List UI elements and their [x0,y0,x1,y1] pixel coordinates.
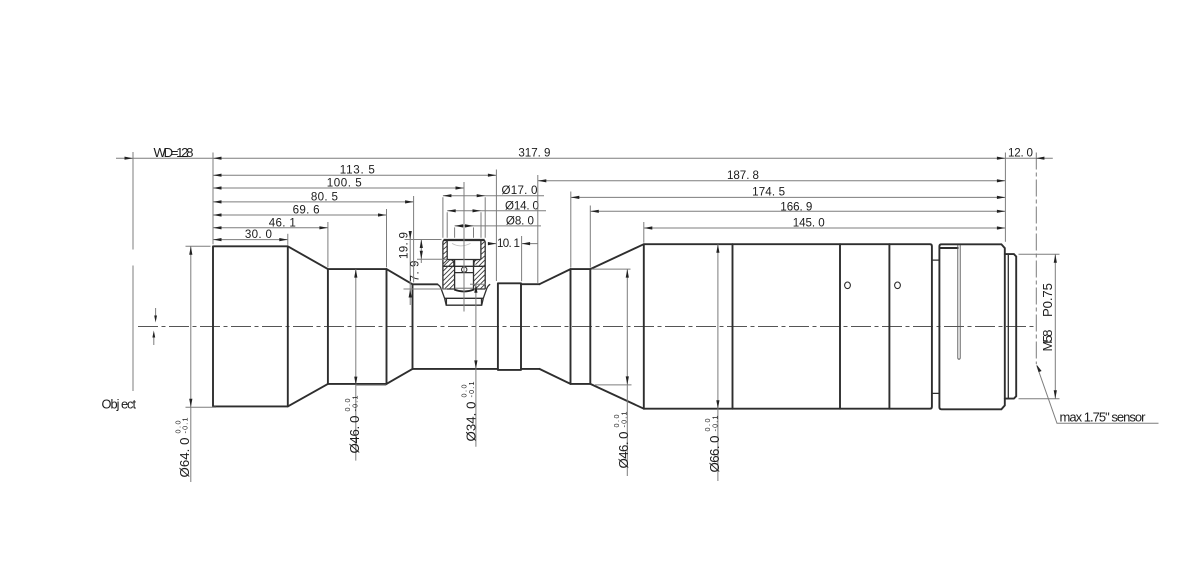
svg-text:46. 1: 46. 1 [269,216,296,229]
svg-text:-0.1: -0.1 [467,382,476,398]
svg-text:-0.1: -0.1 [619,412,628,428]
cone O46 to O34 [387,269,413,384]
svg-text:Obj ect: Obj ect [102,397,137,412]
svg-text:WD=128: WD=128 [154,145,194,160]
svg-text:113. 5: 113. 5 [340,164,375,177]
waist stub left [413,284,498,369]
svg-text:69. 6: 69. 6 [293,203,320,216]
object position ticks [152,308,157,345]
dimension 69.6 [213,203,387,216]
svg-text:80. 5: 80. 5 [311,190,338,203]
svg-text:Ø34. 0: Ø34. 0 [463,402,478,442]
svg-text:7. 9: 7. 9 [409,261,422,282]
lens cell section outline [437,240,490,305]
extension lines right group [538,153,1006,283]
dimension dia 14.0 [447,199,546,212]
centerline axis [138,326,1034,328]
dimension WD=128 [116,145,213,160]
dimension 80.5 [213,190,414,203]
dimension 174.5 [571,186,1006,199]
object plane line [132,152,134,391]
dimension 113.5 [213,164,496,177]
dimension M58 P0.75 [1019,254,1060,399]
lens cell retainer corners [450,260,478,267]
dimension 46.1 [213,216,328,229]
svg-text:100. 5: 100. 5 [327,176,362,189]
main barrel O66 [644,244,932,409]
svg-text:317. 9: 317. 9 [518,146,550,159]
svg-text:Ø46. 0: Ø46. 0 [616,432,631,469]
svg-text:30. 0: 30. 0 [245,228,272,241]
focus ring O34 [498,283,521,370]
set screw holes [845,282,901,289]
svg-text:19. 9: 19. 9 [398,232,411,259]
setscrew circle [462,267,467,272]
waist right cylinder [521,284,539,369]
dimension 30.0 [213,228,288,241]
dimension 317.9 [213,146,1005,160]
svg-text:145. 0: 145. 0 [793,217,825,230]
svg-text:-0.1: -0.1 [181,418,190,434]
svg-text:187. 8: 187. 8 [727,169,759,182]
svg-text:Ø8. 0: Ø8. 0 [506,215,534,228]
svg-text:max 1.75" sensor: max 1.75" sensor [1060,410,1147,425]
front barrel O64 [213,246,288,406]
dimension 10.1 [488,237,538,250]
svg-text:M58: M58 [1040,330,1055,352]
svg-text:Ø66. 0: Ø66. 0 [707,436,722,473]
leader max sensor [1036,364,1158,424]
M58 thread section [1005,254,1016,399]
dimension 100.5 [213,176,464,189]
dimension dia 17.0 [443,184,544,197]
svg-text:P0.75: P0.75 [1040,283,1055,317]
sensor plane [1035,153,1037,365]
svg-text:Ø64. 0: Ø64. 0 [177,438,192,478]
lens cell hatching [443,241,485,289]
cone O64 to O46 [288,246,328,406]
dimension 19.9 [398,231,412,305]
svg-text:Ø14. 0: Ø14. 0 [505,199,539,212]
cone O46 to O66 [590,244,644,409]
extension lines left group [213,153,522,312]
Object label [102,397,137,412]
svg-text:Ø46. 0: Ø46. 0 [347,416,362,454]
dimension dia66 [703,244,722,481]
dimension dia46 front [343,269,386,461]
recess neck ticks [932,260,940,393]
svg-text:-0.1: -0.1 [350,396,359,412]
O46 rear cylinder [571,269,591,384]
dimension 7.9 [409,240,423,282]
dimension 12.0 [1005,146,1052,160]
dimension 166.9 [590,200,1005,213]
cone O34 to O46 rear [539,269,570,384]
dimension 187.8 [538,169,1006,182]
svg-text:12. 0: 12. 0 [1008,146,1033,159]
svg-text:174. 5: 174. 5 [752,186,785,199]
dimension dia 8.0 [455,215,541,228]
dimension dia46 rear [592,269,632,476]
dimension dia34 [460,284,486,447]
svg-text:Ø17. 0: Ø17. 0 [502,184,538,197]
svg-text:166. 9: 166. 9 [780,200,812,213]
svg-text:10. 1: 10. 1 [497,237,520,250]
rear flange [939,244,1004,409]
svg-text:-0.1: -0.1 [710,416,719,432]
dimension 145.0 [644,217,1006,230]
extension lines cell dims [404,197,486,289]
O46 front cylinder [328,269,387,384]
dimension dia64 [173,246,216,482]
